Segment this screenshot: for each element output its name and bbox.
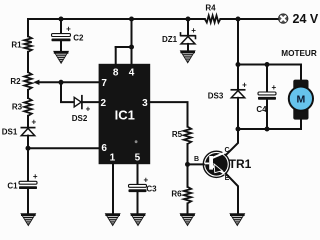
ground below TR1 emitter <box>230 214 245 226</box>
svg-text:4: 4 <box>129 67 135 78</box>
node DS1/C1/pin6 junction <box>26 146 31 151</box>
ground below R6 <box>180 214 195 226</box>
wire DS1 to C1 <box>27 136 29 182</box>
wire TR1 emitter to ground <box>226 174 238 214</box>
wire motor top rail <box>238 64 301 66</box>
wire pin 5 to C3 <box>137 164 139 184</box>
24V supply terminal <box>279 14 288 23</box>
node motor rail left <box>236 62 241 67</box>
wire pin 1 to ground <box>112 164 114 213</box>
motor M1 <box>289 80 313 120</box>
wire TR1 collector to bottom rail <box>226 129 238 155</box>
svg-text:C4: C4 <box>256 105 267 114</box>
svg-text:DS2: DS2 <box>72 114 88 123</box>
wire C4 top lead <box>266 65 268 93</box>
svg-text:7: 7 <box>101 78 107 89</box>
ground below C2 <box>54 51 69 63</box>
transistor TR1 <box>203 151 229 177</box>
wire wiper to IC1 pin 7 <box>39 81 99 83</box>
capacitor C2 <box>52 34 71 37</box>
svg-text:+: + <box>191 26 196 35</box>
wire bridge to top rail <box>131 19 133 47</box>
svg-text:3: 3 <box>142 98 148 109</box>
wire C3 to ground <box>137 192 139 214</box>
svg-text:R6: R6 <box>171 189 182 198</box>
wire DZ1 to ground <box>187 44 189 51</box>
node bridge junction <box>129 45 134 50</box>
svg-text:R1: R1 <box>11 40 22 49</box>
ground below pin 1 <box>105 214 120 226</box>
svg-text:R5: R5 <box>172 130 183 139</box>
resistor R1 <box>24 36 31 52</box>
resistor R5 <box>184 127 191 144</box>
svg-text:24 V: 24 V <box>293 12 319 26</box>
svg-text:R4: R4 <box>205 4 216 13</box>
svg-text:IC1: IC1 <box>115 108 135 123</box>
svg-text:TR1: TR1 <box>229 157 252 171</box>
svg-text:DS3: DS3 <box>208 91 224 100</box>
wire C1 to ground <box>27 189 29 214</box>
resistor R6 <box>184 187 191 204</box>
wire motor bottom riser <box>300 119 302 129</box>
capacitor C3 <box>129 184 147 187</box>
wire rail to DS3 <box>237 65 239 90</box>
svg-text:+: + <box>33 172 38 181</box>
svg-text:B: B <box>194 156 199 163</box>
IC1 orientation dot <box>135 140 138 143</box>
wire pin 4 riser and bridge <box>116 47 132 64</box>
diode DS1 <box>21 127 36 129</box>
svg-text:+: + <box>271 83 276 92</box>
svg-text:R2: R2 <box>10 77 21 86</box>
wire rail to C2 <box>60 19 62 34</box>
wire rail to DZ1 <box>187 19 189 36</box>
diode DS3 <box>231 89 246 91</box>
wire motor riser <box>300 65 302 81</box>
wire R1 to R2 <box>27 52 29 72</box>
diode DS2 <box>74 95 82 109</box>
node base junction <box>185 162 190 167</box>
svg-text:+: + <box>66 25 71 34</box>
wire DS2 branch down from wiper node <box>61 82 74 102</box>
svg-text:R3: R3 <box>12 102 23 111</box>
wire pin 3 to R5 <box>150 102 187 127</box>
wire left branch: rail down to R1 <box>27 19 29 36</box>
wire node to IC1 pin 6 <box>28 147 99 149</box>
svg-text:C2: C2 <box>73 34 84 43</box>
svg-text:DZ1: DZ1 <box>162 35 178 44</box>
wire DS3 to bottom rail <box>237 98 239 129</box>
node rail / pin4 riser <box>129 17 134 22</box>
svg-text:5: 5 <box>135 153 141 164</box>
node C4 bottom <box>265 127 270 132</box>
wire pin 8 riser <box>115 47 117 64</box>
svg-text:8: 8 <box>113 67 119 78</box>
wire motor bottom rail <box>238 128 301 130</box>
ground below DZ1 <box>180 51 195 63</box>
svg-text:+: + <box>242 80 247 89</box>
svg-text:C1: C1 <box>7 182 18 191</box>
svg-text:M: M <box>297 93 306 105</box>
svg-text:2: 2 <box>101 98 107 109</box>
svg-text:6: 6 <box>101 143 107 154</box>
node top rail / C2 <box>59 17 64 22</box>
wire DS2 to IC1 pin 2 <box>83 101 100 103</box>
node C4 top <box>265 62 270 67</box>
ground below C3 <box>131 214 146 226</box>
R2 wiper arrow <box>33 80 39 85</box>
wire R3 to DS1 <box>27 116 29 128</box>
wire R6 to ground <box>187 203 189 213</box>
svg-text:+: + <box>31 117 36 126</box>
wire C4 bottom lead <box>266 100 268 129</box>
svg-text:C3: C3 <box>146 184 157 193</box>
node top rail / 24V branch <box>236 17 241 22</box>
node DZ1 / rail <box>186 17 191 22</box>
svg-text:MOTEUR: MOTEUR <box>281 49 317 58</box>
op-amp / timer IC1 body <box>99 64 151 164</box>
svg-text:+: + <box>143 175 148 184</box>
node wiper/DS2 junction <box>59 80 64 85</box>
wire R5 to base node <box>187 144 189 187</box>
potentiometer R2 <box>24 72 31 90</box>
svg-text:DS1: DS1 <box>2 127 18 136</box>
resistor R3 <box>24 98 31 116</box>
ground below C1 <box>21 214 36 226</box>
wire top supply rail left <box>28 18 205 20</box>
wire top rail right to 24V terminal <box>220 18 278 20</box>
capacitor C4 <box>258 92 276 95</box>
node bottom rail left <box>236 127 241 132</box>
resistor R4 <box>205 16 221 23</box>
capacitor C1 <box>19 181 37 184</box>
wire R2 to R3 <box>27 90 29 98</box>
zener diode DZ1 <box>180 35 196 37</box>
svg-text:1: 1 <box>110 153 116 164</box>
wire 24V branch down <box>237 19 239 65</box>
wire base node to TR1 base <box>188 163 205 165</box>
svg-text:+: + <box>86 104 91 113</box>
wire C2 to ground <box>60 41 62 51</box>
